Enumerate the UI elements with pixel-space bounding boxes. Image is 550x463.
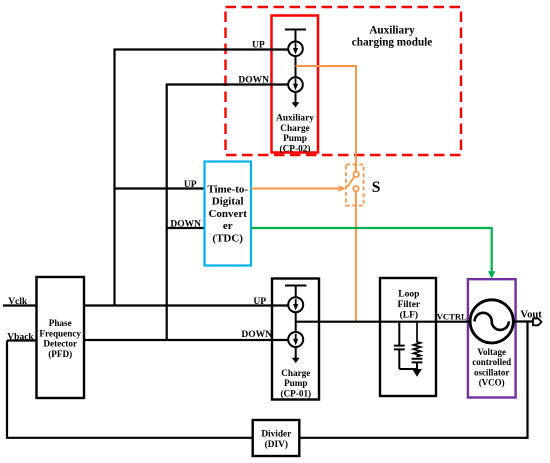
wire: feedback from Vout node down [526,322,528,439]
svg-text:Digital: Digital [212,196,244,208]
svg-text:Phase: Phase [49,318,72,328]
wire: vertical bus B (DOWN from PFD output up to CP-02) [166,85,168,341]
VCO box [468,279,516,397]
CP-01 middle node wire [295,312,297,331]
VCO oscillator circle with sine [470,300,513,343]
svg-text:Charge: Charge [281,368,310,378]
wire: DOWN stub inside CP-01 [271,339,288,341]
svg-text:UP: UP [184,180,197,190]
svg-text:(CP-02): (CP-02) [280,144,311,155]
TDC box [205,162,252,266]
svg-text:Vclk: Vclk [8,297,28,307]
LF bottom connector wire [399,368,417,370]
svg-text:Loop: Loop [398,290,419,300]
svg-text:Charge: Charge [280,124,309,134]
svg-text:DOWN: DOWN [241,330,272,340]
switch S lever [347,177,354,187]
wire: feedback bottom right to divider [299,437,527,439]
wire: VCO output to Vout port [513,320,533,322]
Vout output port symbol [533,319,542,326]
label: Phase Frequency Detector (PFD) [39,318,81,359]
svg-text:(CP-01): (CP-01) [280,388,311,398]
green wire: TDC to VCO with arrow [251,228,495,279]
CP-02 sink arrow to ground [292,92,300,107]
svg-text:Divider: Divider [261,429,291,439]
wire: PFD UP output to CP-01 [84,304,288,306]
CP-02 current source UP (top circle with down arrow) [288,42,303,57]
svg-text:Auxiliary: Auxiliary [369,24,415,36]
svg-text:(VCO): (VCO) [479,378,505,388]
label: Auxiliary charging module [352,24,433,48]
CP-02 supply T-bar [285,30,306,42]
wire: PFD DOWN output to CP-01 [84,339,288,341]
wire: Vback input [7,339,37,341]
svg-text:oscillator: oscillator [474,368,510,378]
wire: CP-01 output through loop filter to VCO (VCTRL net) [296,321,470,323]
svg-text:Convert: Convert [208,208,247,220]
svg-text:Auxiliary: Auxiliary [276,114,314,124]
label: Loop Filter (LF) [397,290,420,321]
svg-text:Vback: Vback [7,332,34,342]
LF resistor R1 [413,323,420,357]
label: Time-to-Digital Converter (TDC) [207,183,248,244]
switch S dashed enclosure [346,165,364,206]
svg-text:(TDC): (TDC) [212,233,243,245]
label: Voltage controlled oscillator (VCO) [472,347,511,388]
svg-text:(PFD): (PFD) [48,349,72,359]
LF capacitor C2 [412,359,423,370]
svg-text:er: er [223,220,233,232]
LF ground arrow [412,369,422,377]
svg-text:(DIV): (DIV) [265,439,288,450]
svg-text:Pump: Pump [284,378,308,388]
orange wire: switch down to CP-01 output node [355,191,357,321]
wire: DOWN into CP-02 [166,83,288,85]
loop filter LF box [380,278,436,396]
wire: divider output left to Vback [7,341,253,438]
svg-text:DOWN: DOWN [170,219,201,229]
auxiliary charging module dashed boundary [226,7,462,155]
svg-text:Time-to-: Time-to- [207,183,248,195]
PFD box [37,277,85,398]
wire: UP stub inside CP-01 [271,304,288,306]
svg-text:UP: UP [253,297,266,307]
switch S upper contact [354,172,359,177]
orange arrow: TDC control to switch [251,185,346,191]
auxiliary charge pump CP-02 box [272,16,319,153]
wire: UP into CP-02 [114,48,289,50]
orange wire: CP-02 mid node to switch [296,66,357,172]
svg-text:Detector: Detector [43,339,77,349]
CP-02 current source DOWN (bottom circle with down arrow) [288,77,303,92]
svg-text:charging module: charging module [352,36,433,48]
switch S lower contact [353,186,358,191]
svg-text:Filter: Filter [397,300,420,310]
svg-text:UP: UP [252,40,265,50]
svg-text:Voltage: Voltage [477,347,506,357]
CP-02 middle node wire [295,56,297,77]
charge pump CP-01 box [272,279,319,400]
wire: DOWN branch into TDC [167,227,205,229]
wire: Vclk input [3,304,37,306]
svg-text:Pump: Pump [283,134,307,144]
wire: UP branch into TDC [115,187,205,189]
CP-01 supply T-bar [285,286,307,298]
label: Divider (DIV) [261,429,291,450]
svg-text:controlled: controlled [472,357,511,367]
LF capacitor C1 branch [394,323,405,369]
CP-01 current source UP (top circle with down arrow) [288,297,303,312]
wire: vertical bus A (UP from PFD output up to CP-02) [113,50,115,306]
svg-text:DOWN: DOWN [238,76,269,86]
wire: VCTRL into VCO circle [466,320,472,322]
svg-text:S: S [372,179,381,196]
svg-text:Frequency: Frequency [39,328,81,338]
svg-text:VCTRL: VCTRL [437,311,467,321]
CP-01 current source DOWN (bottom circle with down arrow) [288,332,303,347]
label: Charge Pump (CP-01) [280,368,311,399]
label: Auxiliary Charge Pump (CP-02) [276,114,314,155]
divider DIV box [253,420,300,456]
svg-text:(LF): (LF) [400,309,418,320]
CP-01 sink arrow to ground [292,347,300,363]
